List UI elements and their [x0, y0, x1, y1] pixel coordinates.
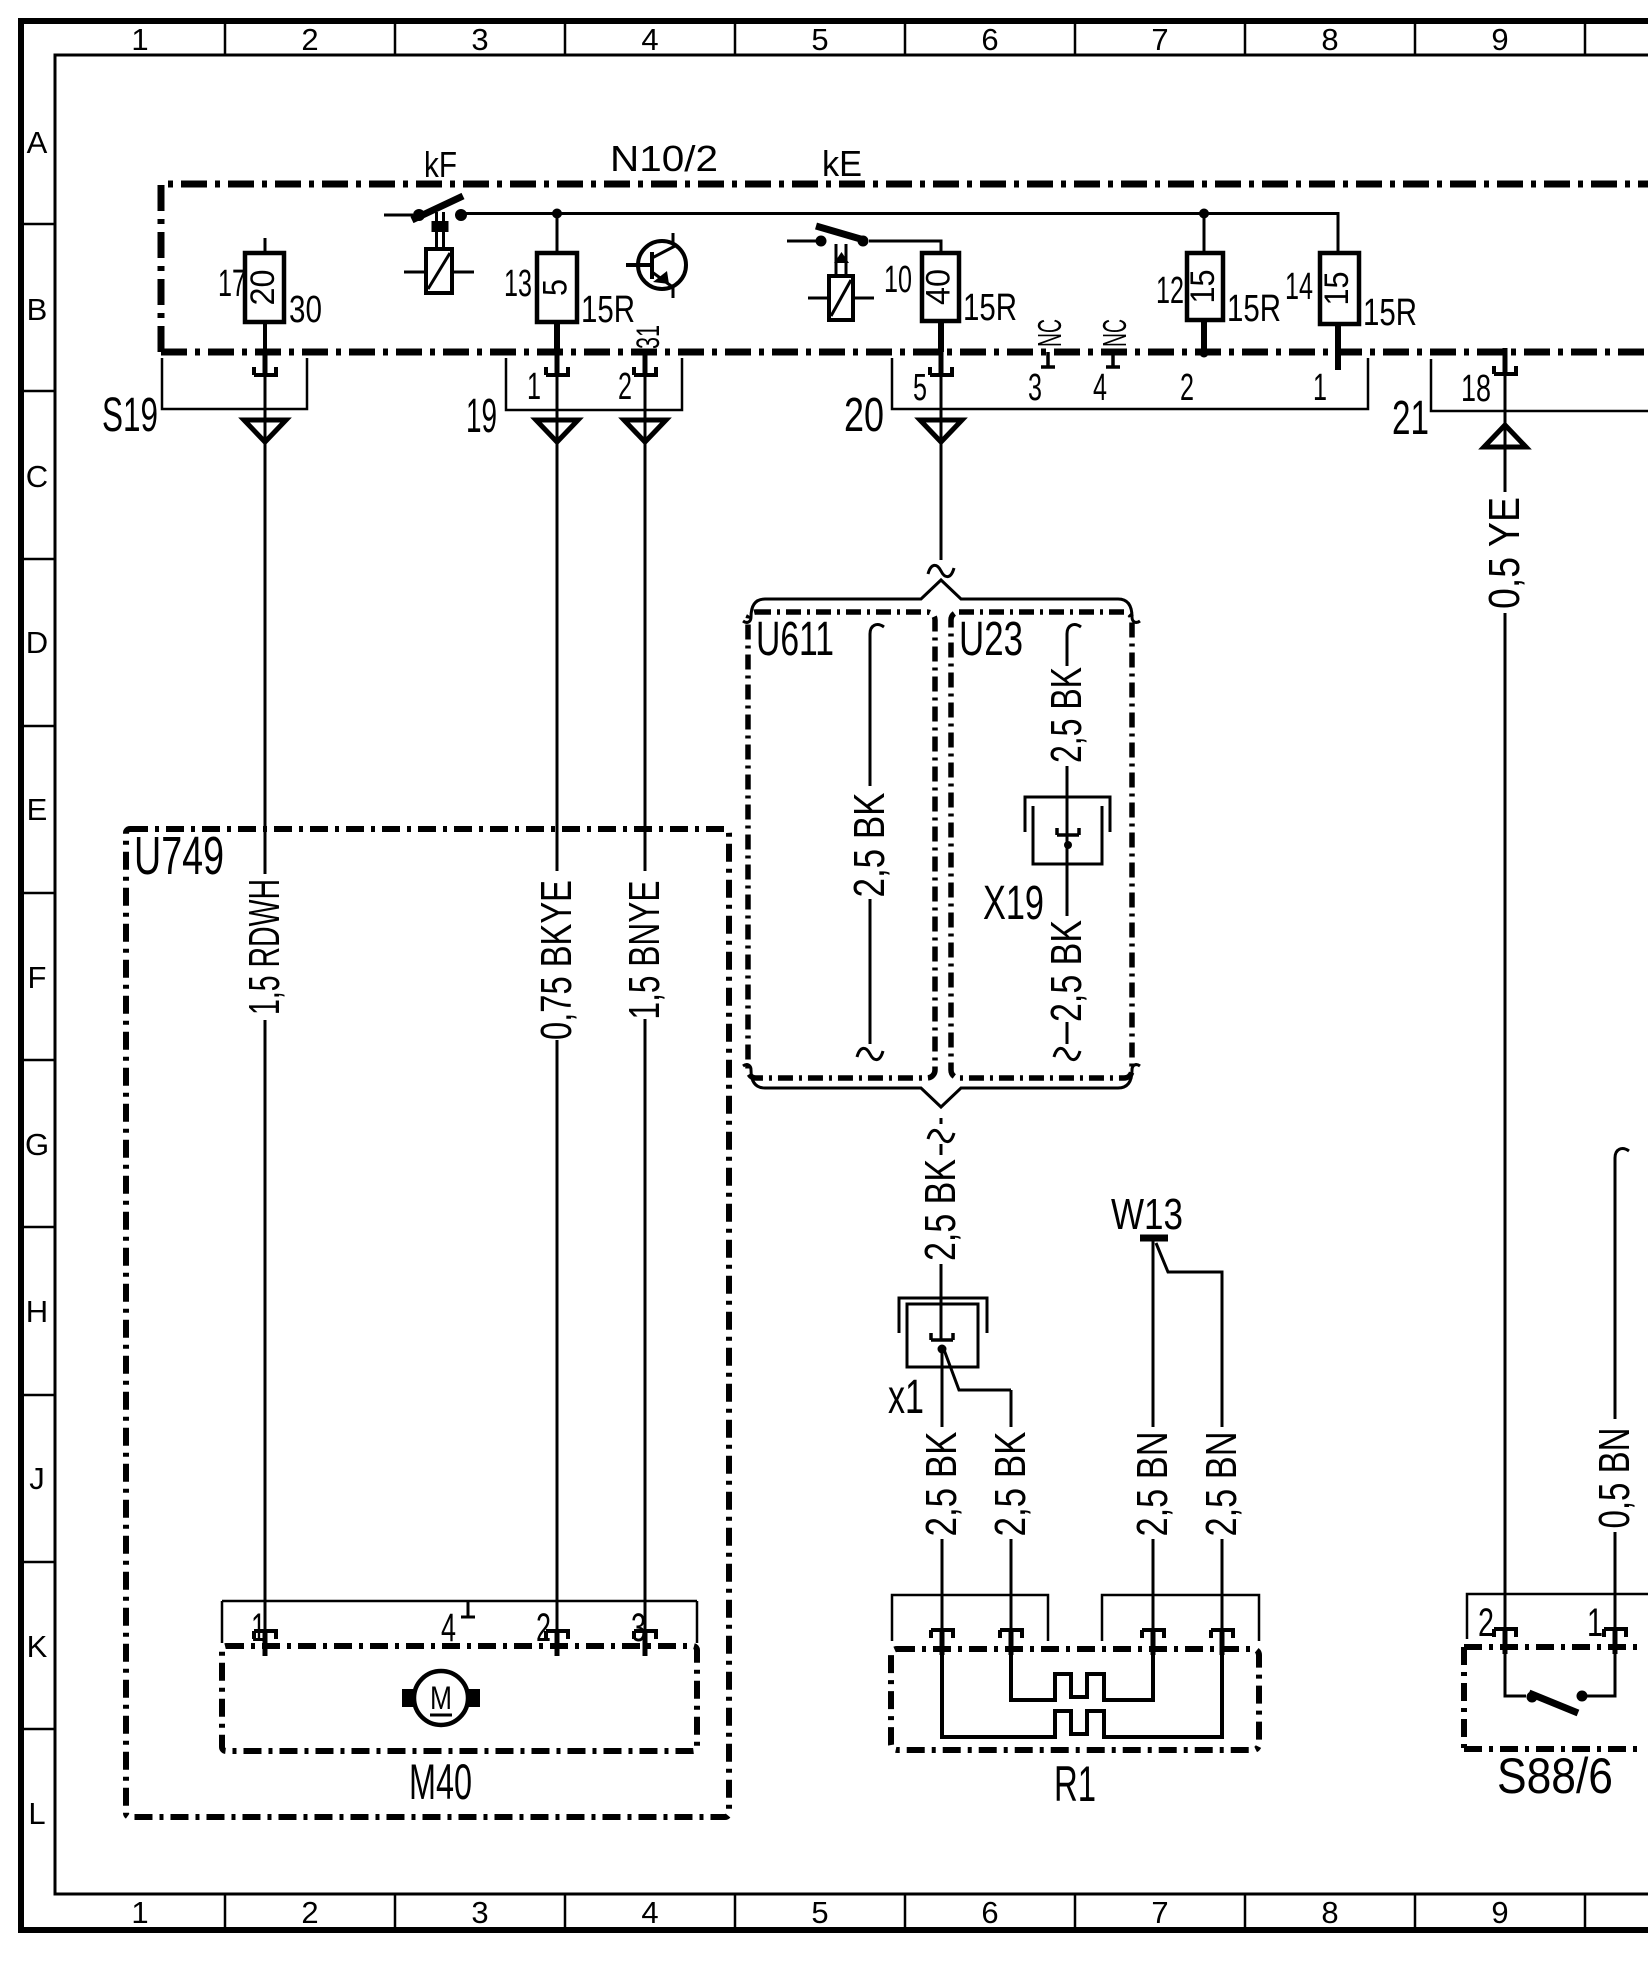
- ground W13 bar: [1140, 1235, 1168, 1242]
- bottom header column numbers: [131, 1895, 1508, 1930]
- svg-text:31: 31: [630, 325, 666, 349]
- svg-text:3: 3: [471, 1895, 488, 1930]
- connector X19: [1025, 797, 1110, 864]
- node junction above fuse 13: [552, 209, 562, 219]
- svg-text:kF: kF: [424, 144, 457, 185]
- svg-text:2: 2: [1478, 1601, 1494, 1645]
- svg-text:S19: S19: [102, 389, 158, 442]
- wire arrow (up) below 21.18: [1484, 425, 1526, 447]
- fuse number / terminal labels: [218, 259, 1417, 334]
- svg-text:R1: R1: [1054, 1756, 1096, 1812]
- pin R1 (2,5 BN left): [1142, 1630, 1164, 1655]
- wire arrow below 19.1: [536, 420, 578, 442]
- wire 0,75 BKYE (19.1 to M40 pin2): [556, 376, 559, 1629]
- svg-text:2,5 BK: 2,5 BK: [917, 1432, 966, 1537]
- left row letters: [25, 125, 49, 1831]
- squiggle on wire 20.5: [928, 565, 954, 576]
- pin M40.4 (stub only): [461, 1602, 475, 1617]
- fuse 13 (5A, 15R): [537, 213, 577, 352]
- svg-text:1,5 RDWH: 1,5 RDWH: [240, 879, 289, 1015]
- svg-text:NC: NC: [1096, 319, 1133, 347]
- connector 21 bracket: [1431, 359, 1648, 411]
- pin number labels: [527, 366, 1491, 410]
- svg-text:U749: U749: [134, 826, 224, 886]
- svg-text:2,5 BN: 2,5 BN: [1128, 1432, 1177, 1537]
- svg-text:D: D: [26, 625, 48, 660]
- svg-text:0,75 BKYE: 0,75 BKYE: [532, 880, 581, 1040]
- svg-text:15: 15: [1184, 270, 1222, 304]
- svg-text:E: E: [27, 792, 48, 827]
- wire 2,5 BN left (W13 to R1): [1152, 1241, 1155, 1630]
- svg-text:2,5 BK: 2,5 BK: [986, 1432, 1035, 1537]
- svg-text:2: 2: [1180, 367, 1194, 409]
- wire arrow below S19: [244, 420, 286, 442]
- svg-text:1: 1: [131, 22, 148, 57]
- top header column numbers: [131, 22, 1508, 57]
- svg-text:4: 4: [641, 1895, 658, 1930]
- pin M40.2: [546, 1631, 568, 1656]
- bottom header column dividers: [225, 1894, 1585, 1930]
- svg-text:2: 2: [618, 366, 632, 408]
- fuse 14 (15A, 15R): [1320, 253, 1359, 370]
- svg-text:W13: W13: [1111, 1190, 1183, 1239]
- pin S88/6.2: [1494, 1629, 1516, 1654]
- relay coil kE: [808, 276, 874, 320]
- svg-text:14: 14: [1285, 266, 1313, 308]
- svg-text:N10/2: N10/2: [610, 138, 718, 179]
- svg-text:2,5 BN: 2,5 BN: [1197, 1432, 1246, 1537]
- resistor box R1 (dash-dot): [891, 1649, 1259, 1750]
- svg-text:5: 5: [811, 1895, 828, 1930]
- svg-text:1: 1: [1313, 367, 1327, 409]
- wire 2,5 BK (20.5 down to bundle): [940, 376, 943, 560]
- svg-text:6: 6: [981, 22, 998, 57]
- svg-text:30: 30: [289, 289, 322, 331]
- fuse 10 (40A, 15R): [922, 253, 959, 352]
- bundle brace bottom: [743, 1065, 1140, 1107]
- connector S19 bracket: [162, 358, 307, 409]
- pin S88/6.1: [1604, 1629, 1626, 1654]
- control unit N10/2 dash-dot box: [161, 184, 1648, 352]
- wire 1,5 RDWH (S19 to M40 pin1): [264, 376, 267, 1629]
- svg-text:NC: NC: [1031, 319, 1068, 347]
- U23 internal wire lower: [1066, 864, 1069, 1044]
- svg-text:15: 15: [1318, 272, 1356, 306]
- pin 20.5: [930, 349, 952, 375]
- svg-text:X19: X19: [983, 877, 1044, 930]
- svg-text:2,5 BK: 2,5 BK: [1042, 920, 1091, 1022]
- svg-text:J: J: [29, 1461, 45, 1496]
- wire arrow below 20.5: [920, 420, 962, 442]
- svg-text:15R: 15R: [1227, 288, 1281, 330]
- svg-text:8: 8: [1321, 22, 1338, 57]
- svg-text:19: 19: [466, 390, 497, 443]
- svg-text:x1: x1: [888, 1371, 924, 1424]
- svg-text:F: F: [28, 960, 47, 995]
- connector 20 bracket: [892, 358, 1368, 409]
- svg-text:17: 17: [218, 263, 246, 305]
- U611 internal wire: [870, 625, 884, 644]
- component box U749 (dash-dot): [126, 829, 729, 1817]
- bundle brace top: [743, 580, 1140, 622]
- relay coil kF: [404, 249, 474, 293]
- svg-text:4: 4: [641, 22, 658, 57]
- svg-text:M40: M40: [409, 1754, 472, 1810]
- pin 19.2: [634, 349, 656, 375]
- svg-text:18: 18: [1461, 368, 1491, 410]
- wire bus inside N10/2: [466, 214, 1338, 254]
- fuse 17 (20A, terminal 30): [245, 238, 284, 352]
- pin R1 (2,5 BN right): [1211, 1630, 1233, 1655]
- svg-text:9: 9: [1491, 22, 1508, 57]
- wire from bundle to x1: [940, 1118, 943, 1124]
- component box U611 (dash-dot): [748, 612, 935, 1078]
- svg-text:9: 9: [1491, 1895, 1508, 1930]
- svg-text:L: L: [28, 1796, 45, 1831]
- svg-text:8: 8: [1321, 1895, 1338, 1930]
- svg-text:13: 13: [504, 263, 532, 305]
- svg-text:0,5 YE: 0,5 YE: [1480, 497, 1529, 609]
- svg-text:U611: U611: [756, 613, 834, 666]
- svg-text:G: G: [25, 1127, 49, 1162]
- motor M40 dash-dot box: [222, 1646, 697, 1751]
- svg-text:7: 7: [1151, 1895, 1168, 1930]
- svg-text:C: C: [26, 459, 48, 494]
- relay contact kF: [384, 196, 467, 249]
- node junction above fuse 12: [1199, 209, 1209, 219]
- svg-text:A: A: [27, 125, 48, 160]
- NC pin stubs (pins 3 and 4 of connector 20): [1041, 352, 1055, 367]
- svg-text:2,5 BK: 2,5 BK: [845, 793, 894, 898]
- svg-text:20: 20: [244, 270, 282, 306]
- svg-text:12: 12: [1156, 270, 1184, 312]
- svg-text:S88/6: S88/6: [1497, 1748, 1613, 1804]
- pin M40.1: [254, 1631, 276, 1656]
- svg-text:2: 2: [301, 22, 318, 57]
- svg-text:3: 3: [471, 22, 488, 57]
- M40 pin number labels: [251, 1606, 646, 1650]
- svg-text:2,5 BK: 2,5 BK: [916, 1159, 965, 1261]
- pin M40.3: [634, 1631, 656, 1656]
- wire 2,5 BK left (x1 to R1): [941, 1349, 944, 1630]
- svg-text:1: 1: [131, 1895, 148, 1930]
- svg-text:M: M: [430, 1680, 452, 1716]
- M40 pin bracket: [222, 1601, 697, 1643]
- wire arrow below 19.2: [624, 420, 666, 442]
- svg-text:40: 40: [920, 269, 958, 305]
- R1 pin brackets: [892, 1595, 1048, 1641]
- switch box S88/6 (dash-dot): [1464, 1647, 1638, 1749]
- wire 1,5 BNYE (19.2 to M40 pin3): [644, 376, 647, 1629]
- U23 internal wire upper: [1067, 625, 1081, 644]
- svg-text:2: 2: [301, 1895, 318, 1930]
- svg-text:U23: U23: [959, 613, 1023, 666]
- connector 19 bracket: [506, 358, 682, 410]
- heating element lower: [942, 1652, 1222, 1737]
- svg-text:15R: 15R: [581, 289, 635, 331]
- svg-text:21: 21: [1392, 392, 1429, 445]
- svg-text:3: 3: [1028, 367, 1042, 409]
- svg-text:K: K: [27, 1629, 48, 1664]
- pin 19.1: [546, 349, 568, 375]
- relay contact kE: [787, 226, 941, 276]
- pin S19: [254, 349, 276, 375]
- svg-text:15R: 15R: [963, 287, 1017, 329]
- motor symbol: [402, 1671, 480, 1725]
- svg-text:4: 4: [1093, 367, 1107, 409]
- svg-text:2: 2: [536, 1606, 551, 1650]
- svg-text:15R: 15R: [1363, 292, 1417, 334]
- x1 pigtail to second wire: [943, 1347, 1011, 1390]
- wire 2,5 BN right (W13 to R1): [1156, 1243, 1222, 1630]
- svg-text:2,5 BK: 2,5 BK: [1042, 667, 1091, 763]
- svg-text:B: B: [27, 292, 48, 327]
- component box U23 (dash-dot): [951, 612, 1132, 1078]
- heating element upper: [1011, 1652, 1153, 1700]
- fuse 12 (15A, 15R): [1187, 213, 1223, 358]
- wire 0,5 YE (21.18 down to S88/6 pin2): [1504, 375, 1507, 1628]
- svg-text:5: 5: [537, 279, 575, 296]
- svg-text:5: 5: [811, 22, 828, 57]
- svg-text:20: 20: [844, 389, 884, 442]
- svg-text:H: H: [26, 1294, 48, 1329]
- svg-text:10: 10: [884, 259, 912, 301]
- svg-text:1: 1: [527, 366, 541, 408]
- pin R1 (2,5 BK left): [931, 1630, 953, 1655]
- svg-text:7: 7: [1151, 22, 1168, 57]
- S88/6 pin bracket: [1467, 1594, 1648, 1639]
- top header column dividers: [225, 21, 1585, 55]
- transistor (in N10/2): [626, 233, 686, 298]
- switch contact S88/6: [1505, 1654, 1615, 1713]
- svg-text:6: 6: [981, 1895, 998, 1930]
- wire 0,5 BN (to S88/6 pin1): [1615, 1149, 1629, 1168]
- svg-text:1: 1: [1587, 1601, 1603, 1645]
- left row dividers: [21, 224, 55, 1729]
- svg-text:0,5 BN: 0,5 BN: [1590, 1428, 1639, 1529]
- pin 21.18: [1494, 348, 1516, 374]
- pin R1 (2,5 BK right): [1000, 1630, 1022, 1655]
- svg-text:5: 5: [913, 367, 927, 409]
- svg-text:kE: kE: [822, 143, 862, 184]
- wire 2,5 BK right (x1 to R1): [1010, 1390, 1013, 1630]
- svg-text:1,5 BNYE: 1,5 BNYE: [620, 881, 669, 1020]
